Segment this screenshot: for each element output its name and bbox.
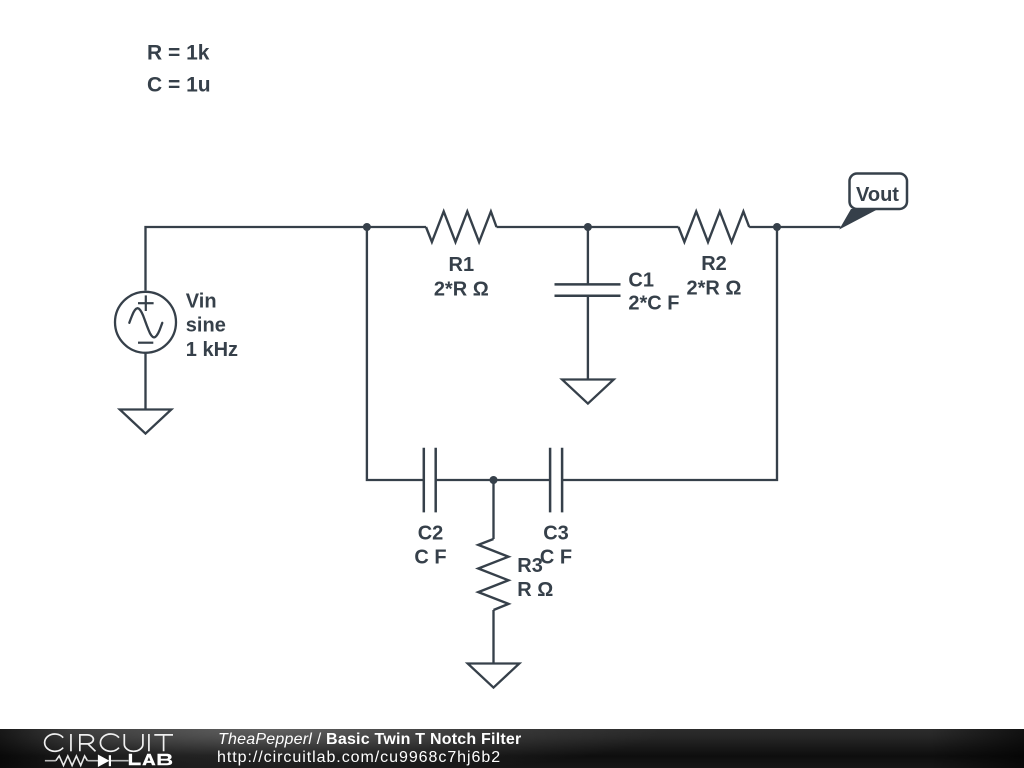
resistor R2 (679, 212, 750, 243)
svg-text:C = 1u: C = 1u (147, 74, 211, 97)
wire top rail mid segment (497, 226, 679, 228)
voltage source V1 circle (115, 292, 176, 353)
svg-text:C1: C1 (628, 269, 654, 291)
wire top rail right segment (749, 226, 840, 228)
logo CIRCUIT wordmark (45, 734, 173, 751)
svg-text:R2: R2 (701, 253, 727, 275)
ground below C1 (562, 380, 614, 404)
svg-text:1 kHz: 1 kHz (186, 339, 238, 361)
resistor R1 (426, 212, 497, 243)
capacitor C3 (550, 448, 562, 513)
svg-text:2*R Ω: 2*R Ω (434, 278, 489, 300)
ground below source (120, 410, 172, 434)
Vout flag bubble (850, 174, 908, 210)
node junction at top-right (773, 223, 781, 231)
capacitor C1 (555, 284, 621, 295)
svg-text:sine: sine (186, 315, 226, 337)
resistor R3 (478, 539, 508, 610)
footer title line (218, 731, 522, 749)
svg-text:R1: R1 (449, 254, 475, 276)
wire R3 top lead (492, 480, 494, 539)
voltage source plus sign (138, 295, 154, 311)
svg-text:C F: C F (414, 546, 446, 568)
svg-text:C3: C3 (543, 523, 569, 545)
wire top rail left segment (146, 227, 427, 291)
wire R3 bottom lead (492, 610, 494, 664)
svg-text:2*C F: 2*C F (628, 293, 679, 315)
svg-text:Vin: Vin (186, 290, 217, 312)
node junction at bottom rail (490, 476, 498, 484)
wire middle vertical (node A to bottom rail) (367, 227, 424, 480)
voltage source sine squiggle (129, 308, 162, 337)
svg-text:Vout: Vout (856, 184, 899, 206)
capacitor C2 (424, 448, 436, 513)
wire bottom rail mid segment (436, 479, 550, 481)
wire source bottom lead (144, 354, 146, 410)
svg-text:C F: C F (540, 546, 572, 568)
footer url line (217, 749, 501, 767)
node junction at top-middle (584, 223, 592, 231)
svg-text:R = 1k: R = 1k (147, 42, 210, 65)
svg-text:R3: R3 (517, 555, 543, 577)
wire C1 bottom lead to ground (587, 296, 589, 380)
logo LAB (129, 754, 172, 765)
svg-text:C2: C2 (418, 523, 444, 545)
svg-text:R Ω: R Ω (517, 579, 553, 601)
footer bar (0, 729, 1024, 768)
svg-text:2*R Ω: 2*R Ω (687, 278, 742, 300)
wire right vertical (562, 227, 777, 480)
Vout flag tail (841, 210, 877, 229)
voltage source minus sign (138, 342, 153, 344)
ground below R3 (468, 664, 520, 688)
node junction at top-left (363, 223, 371, 231)
wire C1 top lead (587, 227, 589, 284)
logo resistor-diode glyph (45, 755, 129, 766)
